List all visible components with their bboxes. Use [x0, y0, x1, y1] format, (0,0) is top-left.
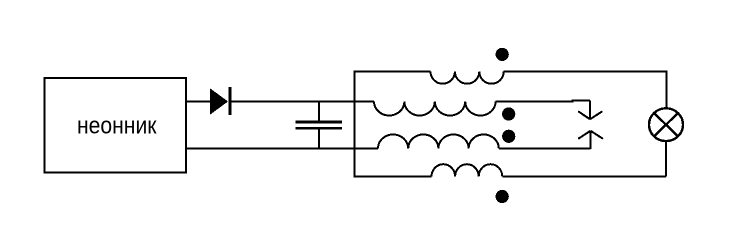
wire box to diode anode — [186, 101, 210, 103]
wire box bottom to winding III start (node with capacitor bottom) — [186, 148, 378, 150]
svg-text:неонник: неонник — [77, 113, 157, 139]
diode D1 — [210, 87, 232, 115]
wire diode cathode to winding II start (node with capacitor top) — [231, 101, 374, 103]
block "неонник" (neon driver) — [45, 78, 187, 173]
wire winding I to lamp branch — [504, 71, 667, 73]
spark gap lower electrode (arrow up) — [578, 131, 603, 149]
wire winding III to spark gap bottom — [499, 148, 591, 150]
lamp HL1 — [649, 108, 683, 141]
left rail joining windings — [354, 71, 356, 178]
wire winding IV to lamp branch — [502, 176, 666, 178]
winding I (3 loops down) — [430, 72, 503, 84]
polarity dot winding I — [496, 48, 509, 61]
wire lamp branch top — [666, 71, 668, 109]
polarity dot winding III — [502, 130, 515, 143]
winding II (4 loops down) — [374, 102, 496, 116]
wire rail to winding IV — [355, 176, 432, 178]
polarity dot winding II — [502, 107, 515, 120]
polarity dot winding IV — [496, 190, 509, 203]
wire lamp branch bottom — [665, 141, 667, 176]
wire winding II to spark gap top — [496, 100, 590, 101]
spark gap upper electrode (arrow down) — [578, 101, 602, 120]
winding III (4 loops up) — [378, 134, 499, 148]
winding IV (3 loops up) — [432, 164, 503, 176]
wire rail to winding I — [355, 71, 431, 73]
capacitor C1 — [296, 102, 343, 149]
